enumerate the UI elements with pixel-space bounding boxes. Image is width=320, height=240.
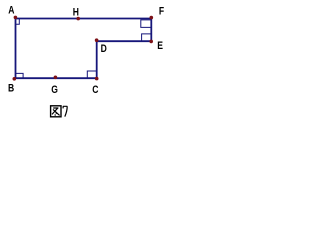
point D [95, 38, 99, 42]
svg-text:F: F [159, 6, 164, 18]
svg-text:D: D [101, 43, 107, 55]
wire segment CB (bottom edge) [16, 77, 97, 79]
right-angle marker at F [141, 20, 152, 28]
point G [54, 76, 58, 80]
wire segment AF (top edge) [16, 18, 152, 20]
svg-text:E: E [157, 40, 163, 52]
point H [76, 17, 80, 21]
right-angle marker at C [87, 71, 96, 78]
wire segment BA (left edge) [15, 19, 17, 79]
svg-text:H: H [73, 7, 79, 19]
svg-text:C: C [92, 84, 98, 96]
point A [14, 16, 18, 20]
right-angle marker at A [16, 19, 20, 25]
wire segment FE (right edge) [150, 19, 152, 42]
point F [150, 16, 154, 20]
svg-text:G: G [51, 84, 58, 96]
point B [13, 77, 17, 81]
caption glyph 图 (drawn) [51, 106, 61, 117]
right-angle marker at E [142, 34, 152, 41]
point C [95, 77, 99, 81]
wire segment DC [96, 41, 98, 78]
svg-text:B: B [8, 83, 14, 95]
wire segment ED [97, 40, 152, 42]
right-angle marker at B [16, 73, 24, 78]
caption digit 7 [63, 106, 67, 116]
svg-text:A: A [8, 5, 14, 17]
point E [149, 40, 153, 44]
